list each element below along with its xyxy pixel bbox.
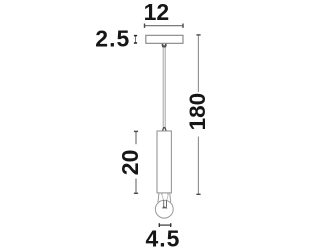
dimension line 180 (196, 35, 200, 194)
dimension line 4.5 (159, 223, 171, 227)
svg-text:12: 12 (144, 0, 170, 25)
filament lead wires (164, 200, 167, 207)
svg-text:4.5: 4.5 (146, 226, 181, 250)
ceiling canopy (146, 35, 183, 43)
dimension line 20 (134, 131, 138, 193)
cord grip at canopy (162, 44, 167, 48)
svg-text:20: 20 (117, 150, 143, 176)
cylinder lamp holder (157, 131, 171, 193)
filament stem flare (162, 195, 168, 200)
filament coil (164, 207, 165, 208)
bulb globe (155, 200, 173, 218)
svg-text:180: 180 (185, 93, 210, 131)
suspension cord (163, 47, 165, 128)
dimension marker 2.5 (134, 36, 137, 43)
bulb socket neck (162, 193, 168, 195)
cord grip at cylinder (162, 128, 166, 132)
dimension line 12 (144, 24, 183, 28)
filament feet (162, 206, 164, 209)
svg-text:2.5: 2.5 (95, 25, 130, 51)
bulb neck curves (158, 193, 171, 202)
